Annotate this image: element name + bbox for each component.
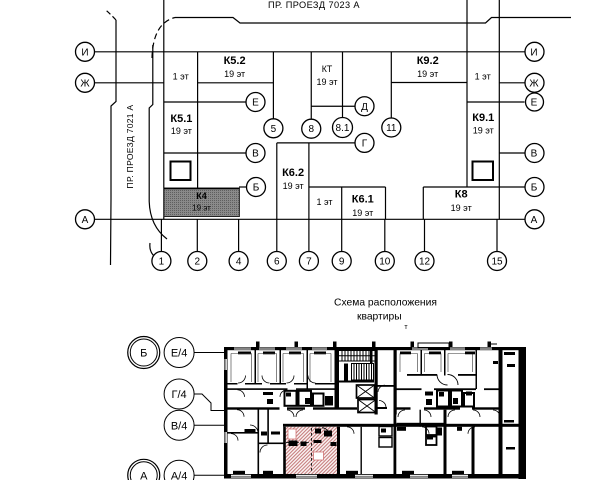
svg-text:И: И: [81, 47, 88, 58]
svg-text:Схема расположения: Схема расположения: [334, 298, 437, 309]
svg-text:А: А: [531, 215, 538, 226]
svg-text:К5.1: К5.1: [170, 113, 192, 125]
svg-text:квартиры: квартиры: [357, 312, 402, 323]
svg-text:9: 9: [339, 257, 345, 268]
svg-text:1 эт: 1 эт: [316, 197, 332, 207]
svg-text:К9.1: К9.1: [472, 112, 494, 124]
svg-text:7: 7: [306, 257, 312, 268]
svg-text:19 эт: 19 эт: [417, 69, 438, 79]
svg-text:1 эт: 1 эт: [173, 72, 189, 82]
svg-text:К4: К4: [196, 191, 207, 201]
svg-text:6: 6: [274, 257, 280, 268]
svg-text:А: А: [82, 215, 89, 226]
svg-text:КТ: КТ: [322, 64, 333, 74]
svg-text:Б: Б: [531, 183, 538, 194]
svg-text:Б: Б: [253, 183, 260, 194]
svg-text:Г/4: Г/4: [172, 389, 187, 401]
svg-text:10: 10: [379, 257, 391, 268]
svg-text:ПР. ПРОЕЗД 7021 А: ПР. ПРОЕЗД 7021 А: [125, 105, 135, 189]
svg-text:2: 2: [195, 257, 201, 268]
svg-text:19 эт: 19 эт: [171, 126, 192, 136]
svg-text:19 эт: 19 эт: [352, 208, 373, 218]
svg-text:И: И: [530, 47, 537, 58]
svg-text:В: В: [531, 149, 538, 160]
svg-text:Ж: Ж: [529, 78, 539, 89]
svg-text:Е/4: Е/4: [171, 348, 188, 360]
svg-text:19 эт: 19 эт: [192, 204, 211, 213]
svg-text:11: 11: [386, 123, 397, 134]
svg-text:4: 4: [236, 257, 242, 268]
svg-text:К8: К8: [455, 189, 468, 201]
svg-text:19 эт: 19 эт: [283, 181, 304, 191]
svg-text:8.1: 8.1: [336, 123, 350, 134]
svg-text:15: 15: [491, 257, 503, 268]
svg-text:А/4: А/4: [171, 470, 188, 480]
svg-text:ПР. ПРОЕЗД 7023 А: ПР. ПРОЕЗД 7023 А: [268, 0, 360, 10]
svg-text:19 эт: 19 эт: [316, 77, 337, 87]
svg-text:Ж: Ж: [80, 78, 90, 89]
svg-text:В: В: [252, 149, 259, 160]
svg-text:5: 5: [271, 124, 277, 135]
svg-text:Г: Г: [362, 138, 368, 149]
svg-text:К5.2: К5.2: [224, 55, 246, 67]
svg-text:12: 12: [419, 257, 431, 268]
svg-text:т: т: [404, 324, 408, 331]
svg-text:К6.1: К6.1: [352, 194, 374, 206]
svg-text:8: 8: [308, 124, 314, 135]
svg-text:19 эт: 19 эт: [451, 203, 472, 213]
svg-text:Д: Д: [361, 102, 368, 113]
svg-text:В/4: В/4: [171, 420, 188, 432]
svg-text:К6.2: К6.2: [282, 167, 304, 179]
svg-text:1 эт: 1 эт: [475, 72, 491, 82]
svg-text:19 эт: 19 эт: [224, 69, 245, 79]
svg-text:А: А: [140, 470, 148, 480]
svg-text:Е: Е: [252, 98, 259, 109]
svg-text:1: 1: [159, 257, 165, 268]
svg-text:К9.2: К9.2: [417, 55, 439, 67]
svg-text:Е: Е: [531, 98, 538, 109]
svg-text:19 эт: 19 эт: [473, 126, 494, 136]
svg-text:Б: Б: [140, 348, 147, 360]
